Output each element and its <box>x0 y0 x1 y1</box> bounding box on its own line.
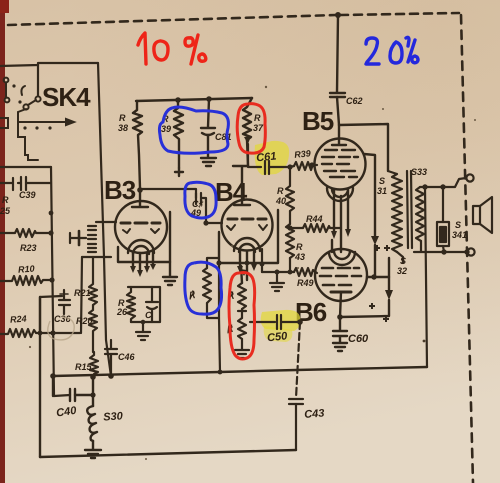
wire S30 to ground <box>92 441 94 449</box>
wire C61 to R39b <box>269 166 294 167</box>
annotation 20% blue <box>366 37 418 64</box>
wire B4 box to R49 line <box>261 249 263 272</box>
wire bus B vertical (SK4 right edge down) <box>98 63 111 376</box>
svg-text:S30: S30 <box>103 410 124 423</box>
svg-text:R23: R23 <box>20 243 37 253</box>
tube B3 bottom loop <box>128 240 154 253</box>
node C50 <box>297 319 303 325</box>
capacitor C61 <box>265 161 269 174</box>
arrow R37 bottom <box>244 136 251 144</box>
wire B4 pin to red resistors <box>241 266 242 283</box>
trimmer arrow <box>70 233 86 243</box>
annotation red loop R37 <box>237 104 265 153</box>
node R24 joint <box>38 331 43 336</box>
ground R49 <box>270 283 284 291</box>
ground C60 <box>333 343 347 351</box>
svg-text:R15: R15 <box>75 362 93 372</box>
wire R49 ground stub <box>276 272 278 282</box>
svg-text:S: S <box>400 256 406 266</box>
svg-text:SK4: SK4 <box>42 82 91 112</box>
svg-text:31: 31 <box>377 186 387 196</box>
svg-text:26: 26 <box>116 307 128 317</box>
wire R39a plus <box>175 168 183 176</box>
coil S33 secondary <box>416 187 424 241</box>
wire C49 to B4 grid <box>201 198 222 223</box>
annotation blue loop R39a <box>159 107 228 153</box>
dashed border right <box>461 15 473 483</box>
node R44 left <box>287 225 292 230</box>
node B+ on dashed border <box>335 12 341 18</box>
wire B6 cathode down <box>340 292 341 317</box>
node rail junctions <box>175 96 212 103</box>
node R49 junctions <box>260 262 293 275</box>
arrow S32 return <box>385 290 393 300</box>
wire S341 drop <box>442 187 444 222</box>
wire red bottom <box>241 339 243 349</box>
wire heater line long <box>53 367 427 376</box>
svg-text:S: S <box>379 176 385 186</box>
wire B5 top cap <box>332 125 346 145</box>
svg-text:32: 32 <box>397 266 407 276</box>
svg-text:37: 37 <box>253 123 264 133</box>
dashed border top right <box>340 13 459 15</box>
tube B5 bottom loop <box>327 188 353 201</box>
coil S30 <box>87 406 97 441</box>
wire B6 anode right <box>367 276 389 278</box>
wire SK4 left stub <box>37 65 39 95</box>
resistor R39b <box>294 162 315 170</box>
tube B4 electrodes <box>227 225 235 230</box>
svg-text:C60: C60 <box>348 333 369 345</box>
wire S32 return with arrow <box>388 258 390 292</box>
wire C43 to bottom <box>295 404 297 450</box>
node B4 box junctions <box>216 260 249 265</box>
resistor R49 <box>294 268 317 276</box>
tube B4 grid dashes <box>228 218 266 221</box>
wire S30 drop <box>92 377 94 406</box>
capacitor C45 <box>146 287 158 322</box>
wire C50 right <box>281 321 300 323</box>
ground red loop <box>235 350 249 358</box>
svg-text:R21: R21 <box>74 288 91 298</box>
plus marks <box>369 245 390 322</box>
wire R24 riser <box>40 296 62 333</box>
ground R26C45 <box>136 332 150 340</box>
svg-text:B3: B3 <box>104 175 136 205</box>
node B3 top cap junction <box>137 187 143 193</box>
capacitor C81 <box>201 128 215 135</box>
coil S31 primary <box>388 171 402 252</box>
wire C81 to ground <box>207 135 209 157</box>
wire R37 arrow <box>247 140 248 166</box>
tube B3 pin arrows <box>130 264 156 277</box>
svg-text:R: R <box>277 186 284 196</box>
svg-text:R: R <box>2 195 9 205</box>
svg-text:38: 38 <box>118 123 128 133</box>
arrow B5 anode drop <box>371 236 379 245</box>
wire B3 top cap <box>132 190 148 207</box>
wire C62 to B5 <box>337 97 339 125</box>
wire B3 grid left <box>96 221 116 223</box>
resistor R10 <box>0 276 52 285</box>
highlight C50 yellow <box>261 310 301 331</box>
wire B+ drop to C62 <box>337 15 338 92</box>
tube B5 pins <box>334 190 348 250</box>
svg-text:R24: R24 <box>10 314 27 325</box>
wire B4 anode box <box>219 210 278 263</box>
switch SK4 contact dots <box>12 84 51 129</box>
wire C40 to S30 <box>75 394 93 396</box>
svg-text:C46: C46 <box>118 352 136 362</box>
wire C81 drop <box>208 99 209 127</box>
wire R49 line <box>262 271 294 273</box>
transformer core <box>407 171 412 248</box>
switch SK4 arm <box>28 100 36 105</box>
capacitor C50 <box>277 315 281 329</box>
svg-text:43: 43 <box>294 252 305 262</box>
ground B3 <box>163 277 177 285</box>
tube B3 pins <box>133 251 153 272</box>
paper speckles <box>29 86 476 460</box>
wire SK4 box top <box>0 63 98 66</box>
wire bus A vertical <box>51 167 70 396</box>
wire crossbar y257 <box>82 256 111 258</box>
node box bottom <box>141 320 146 325</box>
node B6 junctions <box>337 274 376 320</box>
wire SK4 arrow line <box>18 121 68 123</box>
svg-text:R39: R39 <box>294 148 311 160</box>
capacitor C36 <box>59 290 70 314</box>
wire S33 bottom tap <box>414 241 466 252</box>
resistor R44 <box>290 224 341 232</box>
tube B6 grid dashes <box>322 267 359 270</box>
resistor R15 <box>90 352 98 377</box>
resistor R41 (red loop top) <box>238 283 246 309</box>
resistor R39a <box>174 100 183 168</box>
capacitor C46 <box>105 340 117 376</box>
annotation red loop R41R42 <box>229 273 255 360</box>
wire stub x80 <box>81 257 82 333</box>
resistor R24 <box>0 329 80 337</box>
wire B4cap to C61 <box>248 144 261 167</box>
svg-text:S: S <box>455 220 461 230</box>
svg-text:C62: C62 <box>346 96 363 106</box>
svg-text:341: 341 <box>452 230 467 240</box>
node heater junctions <box>90 370 222 398</box>
tube B3 electrodes <box>123 229 130 233</box>
svg-text:R20: R20 <box>76 316 93 326</box>
resistor R23 <box>0 229 51 237</box>
wire S341 to tap <box>443 246 444 252</box>
svg-text:R: R <box>254 113 261 123</box>
wire right bus down <box>425 187 427 367</box>
node B4 grid <box>203 220 208 225</box>
svg-text:C81: C81 <box>215 132 232 142</box>
wire B3 grid to C49 <box>140 189 196 198</box>
switch SK4 body <box>5 83 7 97</box>
wire B5 anode to transformer <box>339 124 388 171</box>
capacitor C40 <box>70 389 75 401</box>
wire enclosure bottom <box>40 450 296 457</box>
svg-text:R49: R49 <box>297 278 314 288</box>
tube B6 cathode bar <box>331 291 351 294</box>
component S341 box <box>437 222 449 246</box>
terminal bottom <box>467 248 474 255</box>
wire B5 anode right drop <box>364 154 375 277</box>
resistor R28 (blue loop) <box>207 258 219 268</box>
wire C40 branch <box>52 376 54 396</box>
resistor R42 (red loop bottom) <box>238 318 246 339</box>
resistor R20 <box>89 305 97 352</box>
speaker <box>473 197 492 233</box>
wire R39b to B5 grid <box>315 164 317 166</box>
wire B6 bottom to plus <box>340 300 389 317</box>
wire R28 bottom <box>207 303 219 318</box>
svg-text:C50: C50 <box>267 330 289 344</box>
svg-text:39: 39 <box>161 124 171 134</box>
svg-text:R: R <box>119 113 126 123</box>
tube B5 grid dashes <box>325 149 355 151</box>
switch SK4 contacts <box>35 96 40 101</box>
annotation blue loop R28 <box>185 262 222 314</box>
multi capacitor stack on bus B <box>88 226 96 252</box>
ground S30 <box>85 450 101 458</box>
wire C39 box top <box>0 166 51 168</box>
wire S32 bottom hook <box>397 252 403 263</box>
capacitor C43 <box>289 399 303 404</box>
svg-text:C39: C39 <box>19 190 36 200</box>
ground C81 <box>201 158 216 166</box>
svg-text:C43: C43 <box>304 408 325 421</box>
resistor R38 <box>133 101 142 188</box>
annotation 10% red <box>138 33 206 64</box>
wire R26/C45 box <box>128 287 160 322</box>
svg-text:S33: S33 <box>411 167 427 177</box>
wire R40-R43 <box>289 211 291 224</box>
wire C50 screen drop (dash-dot) <box>296 322 300 398</box>
resistor R26 <box>127 287 135 322</box>
pencil smudge circle <box>48 317 75 340</box>
svg-text:R10: R10 <box>18 264 35 275</box>
tube B3 grid dashes <box>121 222 160 225</box>
svg-text:B5: B5 <box>302 106 334 136</box>
svg-text:25: 25 <box>0 206 11 216</box>
capacitor C39 <box>0 178 21 190</box>
red page edge strip <box>0 0 5 483</box>
resistor R37 <box>243 98 252 140</box>
tube B6 envelope <box>315 249 367 301</box>
tube B4 envelope <box>222 200 273 251</box>
wire R43 bottom <box>289 258 291 272</box>
wire B3 cathode box <box>118 212 170 262</box>
tube B5 pin arrows <box>331 229 351 239</box>
tube B4 pin arrows <box>237 264 257 276</box>
svg-text:R: R <box>296 242 303 252</box>
terminal top <box>466 174 473 181</box>
node R40 top / R39b end <box>287 162 314 169</box>
tube B4 pins <box>240 250 254 280</box>
svg-text:40: 40 <box>275 196 286 206</box>
wire B3 ground lead <box>169 262 171 276</box>
wire enclosure left <box>39 297 41 457</box>
wire red mid plus <box>238 309 246 318</box>
wire C50 left <box>250 321 275 323</box>
resistor R43 <box>286 224 294 258</box>
capacitor C60 <box>333 317 347 342</box>
node bus A junctions <box>48 211 55 379</box>
wire B5 pin into B6 <box>332 240 341 252</box>
tube B6 top loop <box>329 252 355 265</box>
node tap junctions <box>422 184 469 254</box>
tube B5 envelope <box>315 139 366 190</box>
capacitor C62 <box>330 93 345 97</box>
wire anode rail <box>136 98 252 101</box>
wire S33 top tap <box>420 178 466 187</box>
wire box to ground <box>142 322 144 331</box>
tube B4 bottom loop <box>234 238 260 251</box>
highlight C61 yellow <box>255 141 289 175</box>
svg-text:R44: R44 <box>306 214 323 224</box>
resistor R21 <box>89 257 97 305</box>
annotation blue loop C49 <box>185 182 216 218</box>
wire x219 drop <box>219 263 220 372</box>
tube B3 envelope <box>115 201 167 253</box>
resistor R40 <box>286 167 294 211</box>
wire B4 top cap <box>233 166 250 205</box>
capacitor C49 <box>196 193 201 204</box>
dashed border top <box>8 15 336 25</box>
